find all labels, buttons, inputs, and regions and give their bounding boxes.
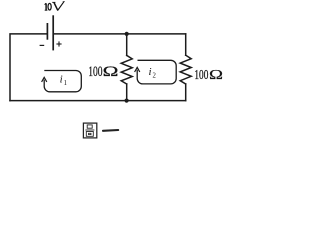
node junction dot bottom (middle branch / bottom wire) [125,99,129,103]
mesh current loop arrow i1 [42,71,82,92]
mesh current loop arrow i2 [135,60,177,84]
一 stroke [103,129,118,132]
svg-text:100Ω: 100Ω [194,68,223,83]
圖 inner top 口 [87,125,92,128]
label 10V (battery value): digit 0 [48,3,51,10]
wire middle branch bottom [126,84,128,101]
圖 outer box [83,123,96,138]
label 10V (battery value): italic V glyph [53,1,65,11]
battery plus sign [56,43,61,45]
wire right branch top [185,34,187,55]
圖 inner bottom 回 [86,132,93,137]
battery minus sign [40,44,45,46]
battery V1 (10V source) [40,15,62,50]
wire right branch bottom [185,84,187,101]
wire top-left segment [10,34,47,101]
圖 middle horizontal [85,129,94,131]
resistor R2 zigzag (right, 100Ω) [180,55,191,84]
svg-text:100Ω: 100Ω [88,64,119,80]
wire bottom segment [10,100,186,102]
caption 圖一 (Figure 1) drawn as strokes [83,123,118,138]
battery positive plate (long bar) [52,15,54,50]
wire top-right segment [54,33,186,35]
battery negative plate (short bar) [46,23,48,40]
label 10V (battery value): digit 1 [45,3,52,10]
resistor R1 zigzag (middle, 100Ω) [121,55,132,84]
node junction dot top (middle branch / top wire) [125,32,129,36]
wire middle branch top [126,34,128,56]
